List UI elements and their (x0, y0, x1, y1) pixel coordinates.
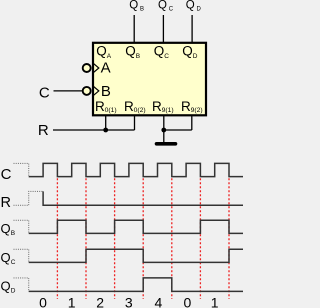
waveform C lead-in (dotted) (14, 163, 29, 176)
svg-text:C: C (39, 84, 50, 101)
waveform Q_D (29, 278, 243, 292)
svg-text:9(2): 9(2) (191, 107, 203, 114)
waveform Q_B lead-in (dotted) (14, 220, 29, 233)
pin label Q_C (inside) (154, 43, 169, 60)
pin label A (101, 59, 111, 76)
pin label B (101, 83, 111, 100)
node label R (reset input) (38, 122, 49, 139)
wire Q_D output (top) (191, 15, 193, 42)
wire Q_B output (top) (133, 15, 135, 42)
svg-text:D: D (197, 7, 202, 13)
svg-text:Q: Q (1, 221, 11, 236)
svg-text:Q: Q (125, 43, 136, 58)
pin stub R9(1) (163, 116, 165, 130)
svg-text:Q: Q (158, 0, 167, 12)
waveform Q_D lead-in (dotted) (14, 278, 29, 292)
signal label Q_D (1, 278, 16, 294)
svg-text:1: 1 (211, 295, 219, 308)
wire R9 pins to ground (164, 129, 192, 131)
svg-text:R: R (1, 195, 11, 211)
svg-text:1: 1 (68, 295, 76, 308)
junction R0 (103, 128, 108, 133)
svg-text:0: 0 (39, 295, 47, 308)
junction R9 (161, 128, 166, 133)
svg-text:B: B (140, 7, 144, 13)
pin label R9(1) (152, 99, 174, 114)
svg-text:B: B (101, 83, 111, 100)
svg-text:B: B (136, 53, 140, 60)
svg-text:R: R (124, 99, 134, 114)
wire down to ground (163, 130, 165, 142)
pin label Q_D (inside) (182, 43, 197, 60)
svg-text:0: 0 (184, 295, 192, 308)
svg-text:D: D (11, 287, 16, 294)
waveform Q_C lead-in (dotted) (14, 249, 29, 262)
input B inversion bubble (83, 87, 91, 95)
waveform Q_B (29, 220, 243, 233)
node label Q_D (top) (186, 0, 202, 13)
input A inversion bubble (83, 64, 91, 72)
svg-text:Q: Q (154, 43, 165, 58)
svg-text:Q: Q (182, 43, 193, 58)
signal label Q_B (1, 221, 16, 237)
signal label R (1, 195, 11, 211)
signal label Q_C (1, 250, 16, 266)
wire Q_C output (top) (162, 15, 164, 42)
node label Q_B (top) (129, 0, 144, 13)
pin stub R9(2) (191, 116, 193, 130)
IC U1 body (7490 decade counter) (93, 43, 206, 116)
svg-text:Q: Q (96, 43, 107, 58)
svg-text:Q: Q (186, 0, 195, 12)
svg-text:Q: Q (129, 0, 138, 12)
signal label C (1, 166, 12, 183)
svg-text:R: R (152, 99, 162, 114)
red dashed edge markers (count boundaries) (57, 178, 229, 299)
pin stub R0(1) (105, 116, 107, 130)
svg-text:C: C (1, 166, 12, 183)
svg-text:C: C (169, 7, 174, 13)
svg-text:R: R (181, 99, 191, 114)
pin label Q_A (inside) (96, 43, 111, 60)
svg-text:3: 3 (125, 295, 133, 308)
pin label R0(2) (124, 99, 146, 114)
waveform R lead-in (dotted) (14, 191, 44, 205)
svg-text:Q: Q (1, 250, 11, 265)
pin label R0(1) (95, 99, 117, 114)
svg-text:C: C (11, 259, 16, 266)
svg-text:C: C (164, 53, 169, 60)
waveform R (43, 191, 243, 205)
input A clock wedge (93, 63, 99, 73)
svg-text:D: D (193, 53, 198, 60)
ground (157, 142, 176, 146)
waveform Q_C (29, 249, 243, 262)
pin stub R0(2) (134, 116, 136, 130)
svg-text:4: 4 (155, 295, 163, 308)
svg-text:2: 2 (96, 295, 104, 308)
node label Q_C (top) (158, 0, 174, 13)
svg-text:0(2): 0(2) (134, 107, 146, 114)
svg-text:R: R (38, 122, 49, 139)
input B clock wedge (93, 86, 99, 96)
pin label R9(2) (181, 99, 203, 114)
wire C to input B (54, 90, 84, 92)
node label C (clock input) (39, 84, 50, 101)
svg-text:A: A (101, 59, 111, 76)
pin label Q_B (inside) (125, 43, 140, 60)
svg-text:Q: Q (1, 278, 11, 293)
svg-text:R: R (95, 99, 105, 114)
svg-text:9(1): 9(1) (162, 107, 174, 114)
wire R to R0 pins (53, 129, 135, 131)
svg-text:B: B (11, 230, 15, 237)
count value labels (39, 295, 219, 308)
waveform C (29, 163, 243, 176)
svg-text:0(1): 0(1) (105, 107, 117, 114)
